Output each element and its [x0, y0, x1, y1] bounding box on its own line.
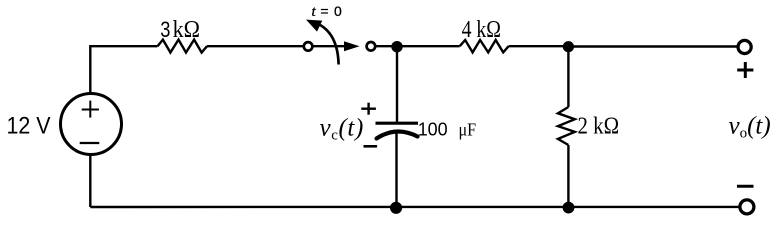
svg-text:3: 3: [160, 17, 170, 42]
output terminal bottom circle: [740, 200, 754, 214]
wire R1 to switch left terminal: [207, 45, 304, 47]
switch SW left terminal circle: [304, 42, 313, 51]
switch blade arrowhead: [344, 41, 360, 51]
svg-text:μF: μF: [459, 119, 477, 139]
svg-text:4 kΩ: 4 kΩ: [462, 17, 501, 43]
wire source bottom terminal down to bottom rail: [89, 154, 91, 207]
resistor R1 3 kOhm zigzag: [158, 40, 208, 53]
resistor R3 2 kOhm zigzag: [558, 107, 575, 145]
wire node A to resistor R2: [397, 45, 460, 47]
node B junction dot: [563, 41, 574, 52]
output minus sign: [737, 185, 754, 188]
svg-text:100: 100: [418, 119, 448, 139]
switch right terminal circle: [367, 42, 376, 51]
switch opening arc: [317, 23, 339, 64]
wire 2k branch bottom: [567, 145, 569, 207]
wire source top terminal up and right to resistor R1: [90, 46, 157, 94]
voltage source V1 circle: [61, 94, 122, 155]
node B bottom junction dot: [563, 202, 575, 214]
output terminal top circle: [738, 40, 751, 53]
node A bottom junction dot: [390, 202, 402, 214]
svg-text:kΩ: kΩ: [173, 17, 200, 43]
wire bottom rail: [90, 206, 740, 209]
wire switch blade (with arrowhead): [312, 45, 346, 47]
svg-text:t = 0: t = 0: [312, 3, 343, 20]
wire switch right terminal to node A: [375, 45, 397, 47]
svg-text:12 V: 12 V: [7, 112, 51, 139]
node A junction dot: [391, 41, 402, 52]
voltage source minus sign: [80, 142, 100, 144]
svg-text:vo(t): vo(t): [729, 113, 771, 142]
capacitor C bottom curved plate: [377, 131, 418, 138]
output plus sign: [737, 62, 753, 78]
capacitor C top plate: [376, 122, 419, 125]
wire 2k branch top: [567, 47, 569, 108]
wire capacitor branch bottom: [395, 133, 397, 207]
resistor R2 4 kOhm zigzag: [460, 40, 509, 52]
capacitor minus sign: [364, 145, 378, 148]
voltage source plus sign: [82, 101, 99, 118]
wire R2 to node B: [509, 45, 569, 47]
svg-text:2 kΩ: 2 kΩ: [578, 113, 620, 139]
switch arc arrowhead: [306, 20, 322, 32]
wire node B to output terminal top: [568, 45, 738, 47]
svg-text:vc(t): vc(t): [320, 115, 364, 144]
capacitor plus sign: [361, 103, 376, 115]
wire capacitor branch top: [396, 46, 398, 123]
